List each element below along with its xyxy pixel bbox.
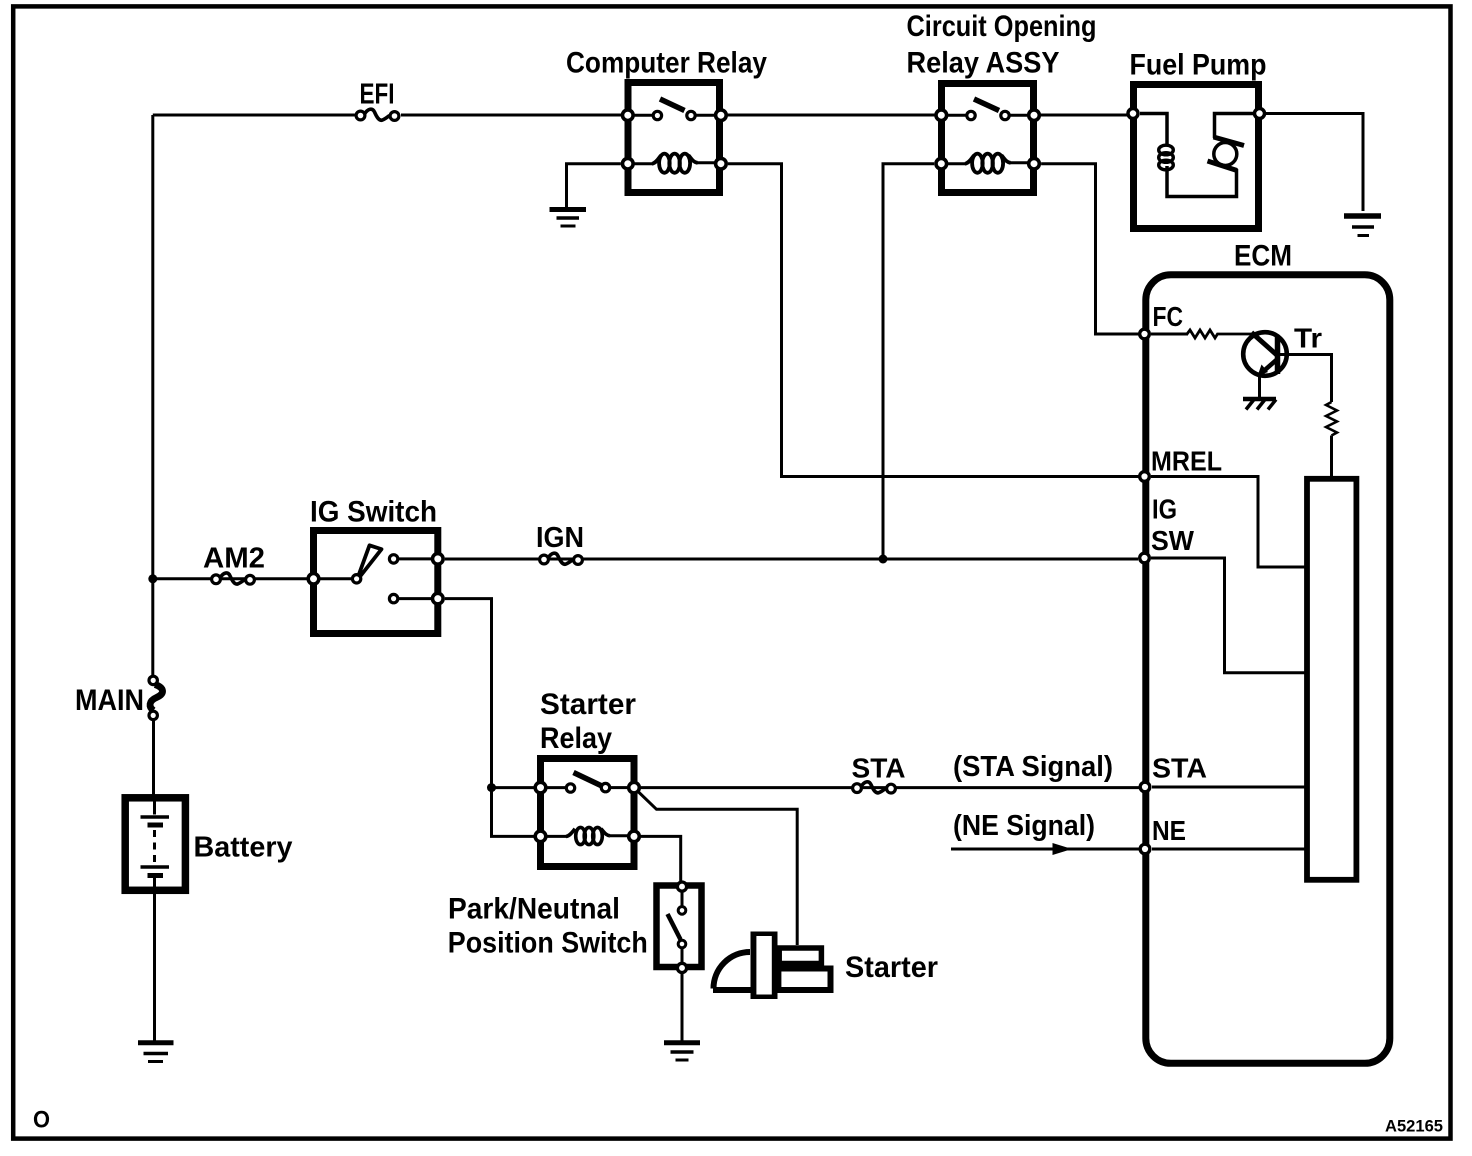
arrowhead: NE signal arrow — [1053, 843, 1073, 855]
coil: Starter Relay coil — [546, 835, 567, 838]
wire: COR coil right pin to FC line — [1041, 164, 1139, 334]
wire: IG SW pin to internal block — [1151, 558, 1305, 673]
wire: starter relay output to Starter — [638, 791, 798, 945]
relay box: Circuit Opening Relay ASSY — [942, 84, 1034, 193]
resistor: vertical resistor inside ECM — [1326, 402, 1337, 436]
pin IG SW — [1140, 553, 1150, 563]
relay box: Starter Relay — [541, 759, 635, 867]
ground: computer relay ground — [550, 207, 587, 212]
wire: junction to starter relay contact pin — [492, 786, 535, 789]
wire: relay internal contact row — [948, 114, 966, 117]
starter motor symbol: lower body rectangle — [778, 969, 830, 991]
wire: EFI fuse to Computer Relay — [401, 114, 625, 117]
wire: NE pin to internal block — [1152, 848, 1305, 851]
svg-text:(NE Signal): (NE Signal) — [953, 810, 1095, 842]
contact circles: IG Switch — [352, 575, 360, 583]
wire: Computer Relay to Circuit Opening Relay — [724, 114, 938, 117]
pin NE — [1140, 844, 1150, 854]
wire: IG contact to ST pin — [399, 597, 431, 600]
contact circles: Starter Relay — [566, 784, 574, 792]
svg-text:MREL: MREL — [1151, 446, 1222, 477]
contact circles: Circuit Opening Relay — [967, 111, 975, 119]
starter motor symbol: upper body rectangle — [779, 948, 821, 964]
svg-text:IG: IG — [1152, 494, 1177, 525]
ground: transistor internal ground (hatched) — [1243, 397, 1276, 402]
wire: MAIN fusible link lead — [152, 718, 155, 795]
wire: junction down to starter relay coil pin — [492, 788, 535, 837]
wire: park/neutral internal stubs — [681, 890, 684, 906]
relay box: Computer Relay — [628, 83, 720, 193]
ground: battery ground — [138, 1040, 174, 1045]
wire: emitter to ground — [1258, 376, 1261, 398]
fuse AM2 — [220, 573, 245, 584]
wire: resistor to internal block — [1330, 436, 1333, 478]
pin MREL — [1140, 472, 1150, 482]
wire: fuel pump internal bottom path — [1167, 166, 1237, 197]
component box: Park/Neutral Position Switch — [657, 886, 702, 968]
svg-text:Starter: Starter — [845, 951, 938, 984]
component box: Fuel Pump — [1134, 85, 1259, 229]
svg-text:(STA Signal): (STA Signal) — [953, 751, 1113, 783]
svg-text:SW: SW — [1151, 525, 1195, 556]
wire: STA line from starter relay to ECM STA pin — [641, 786, 1139, 789]
fuel pump brush bar top — [1214, 137, 1245, 146]
ECM box — [1146, 275, 1390, 1064]
pin: Circuit Opening Relay pins — [936, 110, 947, 121]
junction: IGN line to Circuit Opening Relay coil — [879, 555, 888, 564]
pin FC — [1140, 329, 1150, 339]
wire: EFI feed horizontal to EFI fuse — [153, 114, 356, 117]
wire: Computer Relay coil right pin to MREL line — [728, 164, 1139, 477]
fuel pump motor circle — [1214, 143, 1237, 166]
svg-text:NE: NE — [1152, 815, 1186, 846]
svg-text:EFI: EFI — [360, 79, 395, 111]
junction: starter relay feed — [487, 783, 496, 792]
fusible link MAIN — [150, 685, 162, 711]
wire: IGN line from IG Switch to ECM IG SW pin — [445, 558, 1138, 561]
pin: Fuel Pump pins — [1128, 109, 1138, 119]
wire: Fuel Pump output to ground drop — [1266, 114, 1363, 212]
svg-text:O: O — [33, 1107, 50, 1134]
wire: battery positive feed vertical (B+ rail) — [151, 115, 154, 675]
fuse STA — [861, 782, 886, 793]
switch lever: ignition key wedge — [357, 545, 382, 581]
svg-text:IG Switch: IG Switch — [310, 496, 437, 529]
wire: relay internal contact row — [547, 786, 565, 789]
wire: starter relay coil to park/neutral switch — [641, 836, 681, 881]
svg-text:Fuel Pump: Fuel Pump — [1130, 49, 1267, 82]
wire: NE signal arrow line — [951, 848, 1139, 851]
svg-text:Tr: Tr — [1294, 323, 1322, 354]
wire: collector to pull-up resistor — [1280, 355, 1332, 403]
svg-text:STA: STA — [1152, 752, 1207, 783]
svg-text:A52165: A52165 — [1385, 1117, 1443, 1136]
pin: Computer Relay pins — [623, 110, 634, 121]
svg-text:Battery: Battery — [194, 832, 293, 864]
internal block rectangle inside ECM — [1307, 479, 1356, 880]
wire: MREL pin to internal block — [1151, 477, 1305, 568]
junction: B+ rail to AM2 branch — [148, 574, 157, 583]
pin: park/neutral switch pins — [677, 882, 686, 891]
transistor Tr — [1243, 332, 1287, 376]
fuse IGN — [548, 553, 573, 564]
switch blade: Computer Relay contact — [660, 99, 685, 111]
wire: park/neutral switch to ground — [681, 974, 684, 1041]
wire: fuel pump right pin down to motor — [1215, 114, 1254, 139]
svg-text:Starter: Starter — [540, 688, 636, 721]
battery internal cells — [153, 801, 156, 815]
resistor: FC base resistor (horizontal zigzag) — [1187, 330, 1253, 338]
svg-text:STA: STA — [852, 752, 906, 783]
svg-text:ECM: ECM — [1234, 240, 1292, 273]
svg-text:FC: FC — [1153, 301, 1184, 332]
pin: IG Switch pins — [308, 574, 319, 585]
svg-text:IGN: IGN — [536, 522, 584, 554]
starter motor symbol: bell housing — [714, 952, 751, 989]
wire: STA pin to internal block — [1152, 786, 1305, 789]
svg-text:Circuit Opening: Circuit Opening — [907, 10, 1097, 43]
coil: fuel pump coil — [1159, 145, 1174, 155]
switch blade: Starter Relay contact — [574, 773, 605, 788]
switch blade: park/neutral switch — [668, 914, 681, 940]
wire: Computer Relay coil left pin to ground — [567, 164, 621, 207]
ground: fuel pump ground — [1344, 213, 1381, 219]
pin STA — [1140, 782, 1150, 792]
contact circles: park/neutral switch — [678, 907, 686, 915]
fuel pump brush bar bottom — [1208, 161, 1238, 171]
svg-text:Relay ASSY: Relay ASSY — [907, 47, 1060, 80]
starter motor symbol: flange bar — [751, 932, 778, 1000]
coil: Computer Relay coil — [633, 162, 653, 165]
component box: IG Switch — [314, 531, 438, 634]
wire: FC pin to base resistor — [1151, 333, 1188, 336]
wire: IG switch pole — [321, 577, 352, 580]
svg-text:Position Switch: Position Switch — [448, 926, 648, 959]
battery box — [125, 798, 185, 891]
wire: COR coil left pin down to IGN line — [883, 164, 934, 559]
pin: Starter Relay pins — [535, 782, 546, 793]
svg-text:Computer Relay: Computer Relay — [566, 47, 767, 80]
contact circles: Computer Relay — [653, 111, 661, 119]
wire: relay internal contact row — [634, 114, 652, 117]
wire: IG contact to IGN pin — [399, 557, 431, 560]
wire: fuel pump internal left branch to coil — [1140, 114, 1167, 147]
coil: Circuit Opening Relay coil — [946, 162, 966, 165]
switch blade: Circuit Opening Relay contact — [974, 99, 999, 111]
ground: park/neutral switch ground — [664, 1040, 700, 1045]
svg-text:MAIN: MAIN — [75, 684, 144, 717]
wire: AM2 branch to IG Switch — [153, 577, 310, 580]
wire: Circuit Opening Relay to Fuel Pump — [1037, 114, 1127, 117]
wire: battery negative to ground — [153, 894, 156, 1041]
fuse EFI — [365, 109, 390, 120]
wire: IG Switch ST pole to Starter Relay — [445, 599, 492, 788]
svg-text:AM2: AM2 — [203, 543, 265, 575]
svg-text:Park/Neutnal: Park/Neutnal — [448, 893, 620, 926]
svg-text:Relay: Relay — [540, 722, 612, 755]
